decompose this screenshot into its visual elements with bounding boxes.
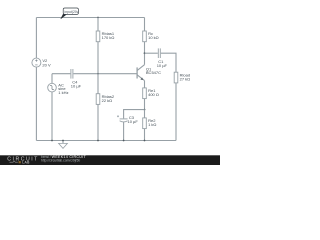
- svg-text:27 kΩ: 27 kΩ: [180, 76, 191, 81]
- svg-text:1 kΩ: 1 kΩ: [148, 122, 156, 127]
- wire emitter node to bypass cap: [124, 110, 145, 119]
- resistor Rbias1: [96, 18, 115, 74]
- svg-text:10 µF: 10 µF: [157, 63, 168, 68]
- resistor Rload: [174, 72, 190, 140]
- svg-text:http://circuitlab.com/c/9jr5b: http://circuitlab.com/c/9jr5b: [41, 158, 80, 162]
- wire collector to C1: [145, 52, 158, 54]
- AC source: [48, 74, 69, 141]
- wire left column lower: [35, 67, 37, 140]
- svg-text:22 kΩ: 22 kΩ: [102, 98, 113, 103]
- resistor Rbias2: [96, 74, 115, 141]
- svg-text:20 V: 20 V: [42, 62, 51, 67]
- capacitor C1: [157, 48, 168, 68]
- svg-text:10 µF: 10 µF: [71, 83, 82, 88]
- ground: [59, 140, 68, 149]
- svg-text:BC547C: BC547C: [146, 70, 161, 75]
- svg-text:LAB: LAB: [22, 160, 30, 164]
- wire base rail left: [52, 73, 70, 75]
- node base junction: [97, 73, 99, 75]
- transistor Q1: [137, 65, 161, 88]
- wire left column upper: [35, 18, 37, 59]
- annotation callout input: [61, 8, 79, 19]
- capacitor C3 polarized: [117, 115, 138, 141]
- resistor Re1: [143, 88, 159, 110]
- svg-text:400 Ω: 400 Ω: [148, 92, 159, 97]
- svg-text:10 µF: 10 µF: [128, 119, 139, 124]
- node bottom rail junctions: [51, 140, 145, 142]
- svg-text:170 kΩ: 170 kΩ: [102, 35, 115, 40]
- resistor Rc: [143, 18, 159, 65]
- wire C1 to Rload: [161, 53, 176, 72]
- svg-text:10 kΩ: 10 kΩ: [148, 35, 159, 40]
- svg-text:input(20v: input(20v: [65, 10, 79, 14]
- wire base rail right: [73, 73, 137, 75]
- node top rail junction: [97, 17, 99, 19]
- wire top rail: [36, 17, 144, 19]
- svg-text:1 kHz: 1 kHz: [58, 90, 68, 95]
- node collector junction: [144, 52, 146, 54]
- footer bar: [0, 155, 220, 165]
- voltage source V2: [32, 58, 51, 67]
- wire bottom rail: [36, 140, 176, 142]
- node emitter junction: [144, 109, 146, 111]
- resistor Re2: [143, 110, 157, 141]
- capacitor C4: [71, 69, 82, 88]
